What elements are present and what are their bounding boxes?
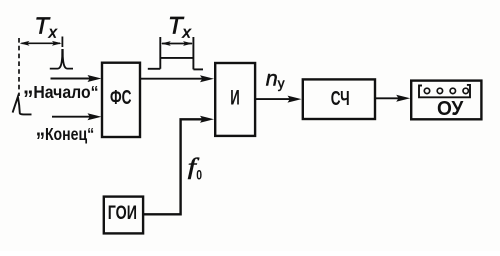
indicator lamp 1 <box>424 88 429 93</box>
block И (AND gate) <box>215 63 255 136</box>
block ОУ (display unit) <box>411 81 481 120</box>
dimension arrow Tx (middle), double-headed <box>162 43 192 45</box>
wire: СЧ output to ОУ <box>375 97 400 99</box>
wire: И output to СЧ <box>255 98 291 100</box>
waveform: narrow start pulse spike <box>50 50 73 69</box>
waveform: gate pulse Tx between ФС and И <box>159 37 161 69</box>
wire: ФС output to И <box>140 78 203 80</box>
svg-text:СЧ: СЧ <box>331 87 350 110</box>
wire: arrow „Начало" input to ФС <box>51 78 92 80</box>
svg-text:ФС: ФС <box>110 87 132 109</box>
node: dashed reference line (start-event time mark) <box>18 38 20 96</box>
wire: ГОИ output up to И second input <box>143 119 204 214</box>
block СЧ (counter) <box>303 79 375 119</box>
indicator lamp 3 <box>450 88 455 93</box>
svg-text:ГОИ: ГОИ <box>108 203 137 224</box>
tick: right boundary of left Tx dimension <box>61 37 63 48</box>
waveform: stop pulse spike on dashed line <box>13 97 32 115</box>
display window of ОУ <box>419 85 470 97</box>
block ГОИ (reference pulse generator) <box>104 197 143 234</box>
svg-text:ОУ: ОУ <box>437 98 464 120</box>
block ФС (pulse shaper) <box>102 63 140 137</box>
indicator lamp 4 <box>463 88 468 93</box>
dimension arrow Tx (left), double-headed <box>22 42 61 44</box>
svg-text:0: 0 <box>196 167 202 183</box>
indicator lamp 2 <box>437 88 442 93</box>
wire: arrow „Конец" input to ФС <box>52 116 91 118</box>
svg-text:И: И <box>230 85 240 109</box>
